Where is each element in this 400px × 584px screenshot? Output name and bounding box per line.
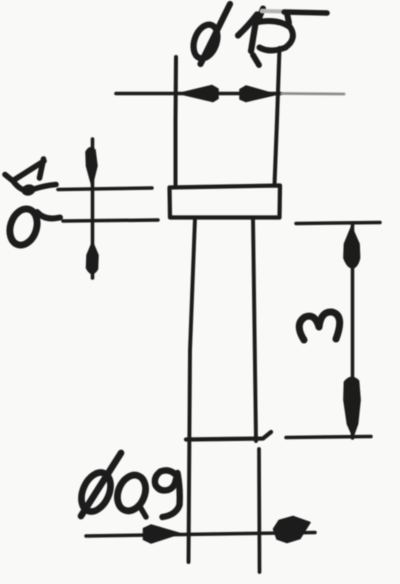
label: digit 9 of 0.9 xyxy=(155,470,180,517)
wire: 0.4 upper extension line xyxy=(58,188,152,190)
wire: lower shaft left edge + extension line xyxy=(189,218,196,562)
wire: part outline - top cylinder left edge / extension line xyxy=(174,57,179,185)
wire: 0.9 right extension line xyxy=(257,449,261,572)
wire: 0.4 lower extension line xyxy=(63,220,158,221)
label: comma of 0.9 xyxy=(139,505,146,517)
node: dim 1.5 right arrow xyxy=(240,86,276,102)
label: comma of 1.5 xyxy=(253,55,259,65)
wire: diameter 1.5 dimension line overhang (faint) xyxy=(282,92,344,95)
label: digit 0 of 0.4 (rotated) xyxy=(5,205,41,248)
label: diameter symbol of 0.9 xyxy=(76,453,121,516)
label: digit 3 (rotated) xyxy=(299,312,339,340)
wire: part outline - top cylinder right edge / extension line xyxy=(275,48,280,185)
label: digit 1 of 1.5 xyxy=(238,15,257,52)
node: dim 0.4 top arrow xyxy=(86,148,97,186)
node: dim 3 bottom arrow xyxy=(344,377,360,436)
label: comma of 0.4 xyxy=(37,212,60,218)
label: digit 5 of 1.5 xyxy=(258,9,328,51)
node: dim 0.9 left arrow xyxy=(144,525,181,543)
node: dim 0.9 right arrow xyxy=(274,517,311,543)
wire: diameter 1.5 dimension line xyxy=(116,92,281,96)
label: digit 4 of 0.4 (rotated, drawn in screen coords) xyxy=(5,159,56,197)
wire: lower shaft right edge xyxy=(253,218,256,441)
wire: 0.4 dimension line vertical xyxy=(91,139,95,278)
node: dim 3 top arrow xyxy=(344,227,360,268)
wire: dim 3 bottom extension line xyxy=(286,437,371,438)
node: dim 1.5 left arrow xyxy=(179,86,218,102)
node: dim 0.4 bottom arrow xyxy=(87,242,99,274)
label: digit 0 of 0.9 xyxy=(112,471,150,515)
flange: part outline rectangle xyxy=(170,186,281,218)
wire: dim 3 vertical dimension line xyxy=(351,225,355,438)
wire: shaft bottom edge xyxy=(186,432,271,440)
wire: dim 3 top extension line xyxy=(296,223,380,224)
label: diameter symbol of 1.5 xyxy=(189,4,230,64)
wire: diameter 0.9 dimension line xyxy=(86,533,315,537)
